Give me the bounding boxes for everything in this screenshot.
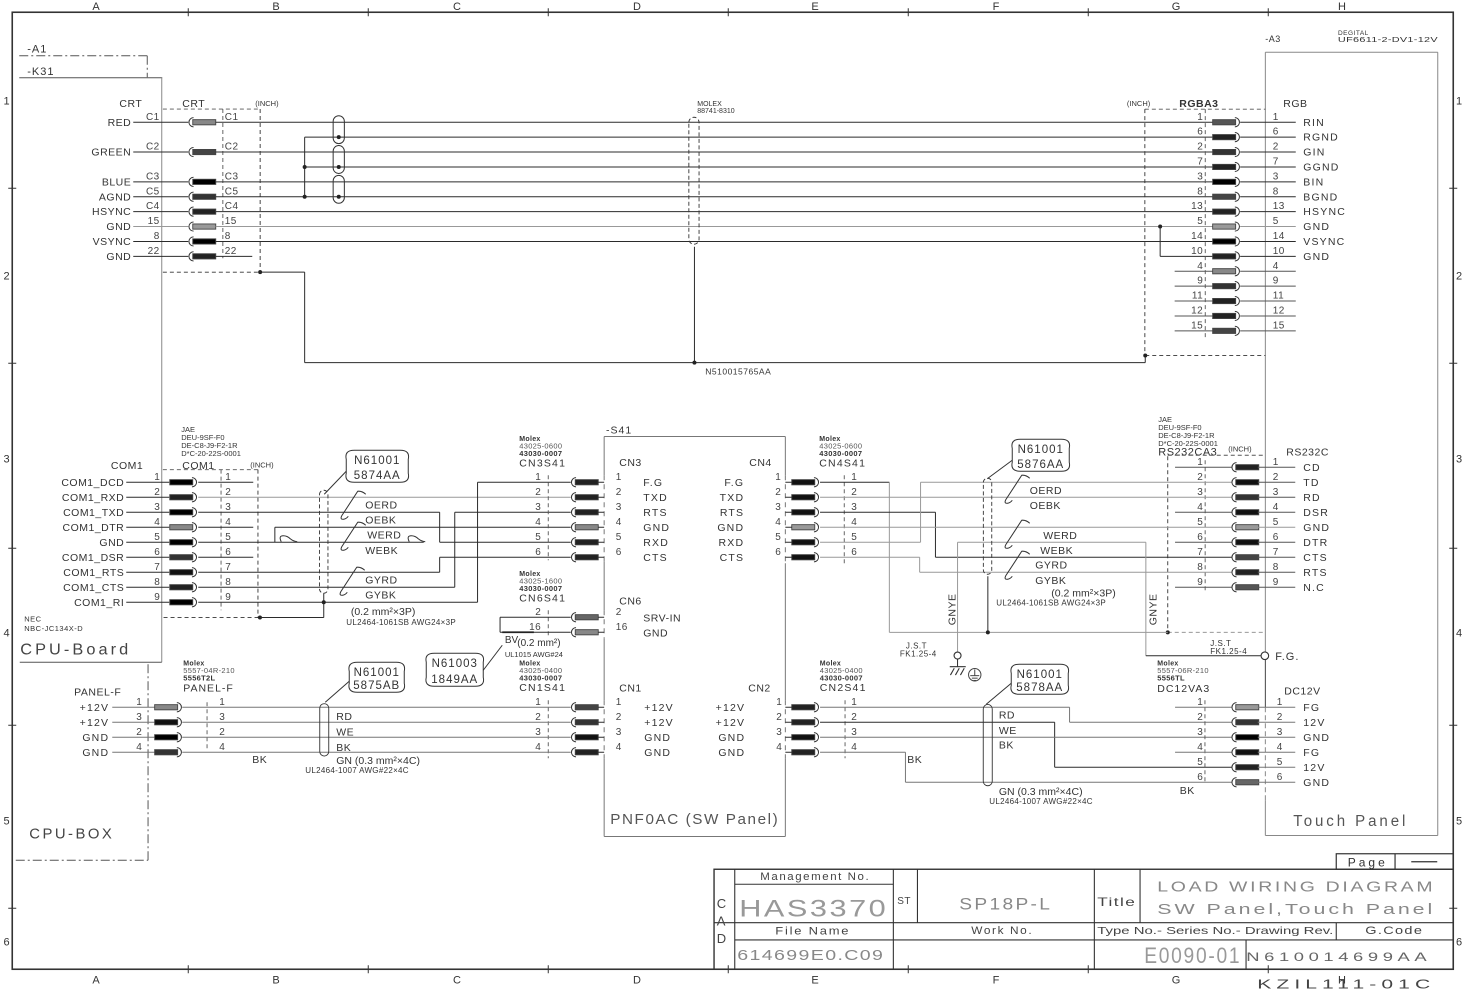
svg-text:2: 2 bbox=[219, 727, 225, 738]
svg-text:4: 4 bbox=[1197, 502, 1203, 513]
svg-text:15: 15 bbox=[225, 216, 237, 227]
svg-text:6: 6 bbox=[225, 547, 231, 558]
svg-text:TXD: TXD bbox=[720, 492, 745, 504]
svg-text:9: 9 bbox=[225, 592, 231, 603]
svg-text:CTS: CTS bbox=[720, 552, 745, 564]
svg-text:22: 22 bbox=[148, 246, 160, 257]
svg-text:C4: C4 bbox=[225, 201, 239, 212]
svg-text:DTR: DTR bbox=[1303, 537, 1328, 549]
svg-text:4: 4 bbox=[1273, 261, 1279, 272]
svg-text:+12V: +12V bbox=[716, 717, 746, 729]
svg-text:BK: BK bbox=[1180, 785, 1195, 797]
svg-text:3: 3 bbox=[1277, 727, 1283, 738]
svg-text:C2: C2 bbox=[225, 142, 239, 153]
svg-text:13: 13 bbox=[1191, 201, 1203, 212]
svg-text:COM1_DSR: COM1_DSR bbox=[62, 552, 124, 564]
svg-text:3: 3 bbox=[851, 502, 857, 513]
svg-text:16: 16 bbox=[616, 622, 628, 633]
svg-text:C3: C3 bbox=[146, 171, 160, 182]
svg-text:OEBK: OEBK bbox=[365, 514, 396, 526]
svg-text:RTS: RTS bbox=[1303, 567, 1327, 579]
svg-text:1: 1 bbox=[1197, 697, 1203, 708]
svg-text:COM1_DCD: COM1_DCD bbox=[61, 477, 124, 489]
svg-text:CRT: CRT bbox=[119, 98, 142, 110]
svg-text:RGB: RGB bbox=[1283, 98, 1307, 110]
svg-text:2: 2 bbox=[851, 712, 857, 723]
svg-text:1: 1 bbox=[225, 472, 231, 483]
svg-text:+12V: +12V bbox=[80, 702, 110, 714]
svg-text:8: 8 bbox=[225, 577, 231, 588]
svg-text:FK1.25-4: FK1.25-4 bbox=[1210, 647, 1247, 656]
svg-text:-A1: -A1 bbox=[27, 43, 47, 55]
svg-text:CN2S41: CN2S41 bbox=[820, 682, 867, 694]
svg-text:HSYNC: HSYNC bbox=[92, 206, 131, 218]
svg-text:2: 2 bbox=[1197, 142, 1203, 153]
svg-text:(INCH): (INCH) bbox=[1228, 444, 1252, 453]
svg-text:CN1: CN1 bbox=[619, 682, 642, 694]
svg-text:11: 11 bbox=[1273, 291, 1284, 302]
svg-text:GNYE: GNYE bbox=[1147, 593, 1159, 625]
svg-text:16: 16 bbox=[529, 622, 541, 633]
svg-text:SRV-IN: SRV-IN bbox=[643, 612, 681, 624]
svg-text:8: 8 bbox=[154, 231, 160, 242]
svg-text:COM1_RTS: COM1_RTS bbox=[63, 567, 124, 579]
svg-text:2: 2 bbox=[1277, 712, 1283, 723]
svg-text:GND: GND bbox=[106, 221, 131, 233]
svg-text:12: 12 bbox=[1191, 305, 1203, 316]
svg-text:2: 2 bbox=[776, 712, 782, 723]
svg-text:GND: GND bbox=[1303, 732, 1330, 744]
svg-text:4: 4 bbox=[616, 517, 622, 528]
svg-text:5: 5 bbox=[1273, 216, 1279, 227]
svg-text:File Name: File Name bbox=[775, 925, 850, 937]
svg-text:5556T2L: 5556T2L bbox=[183, 673, 215, 682]
svg-text:C4: C4 bbox=[146, 201, 160, 212]
svg-text:RIN: RIN bbox=[1303, 117, 1325, 129]
svg-text:1: 1 bbox=[1197, 457, 1203, 468]
svg-text:4: 4 bbox=[775, 517, 781, 528]
svg-text:1: 1 bbox=[616, 472, 622, 483]
svg-text:6: 6 bbox=[1197, 127, 1203, 138]
svg-text:88741-8310: 88741-8310 bbox=[697, 108, 734, 115]
svg-text:(INCH): (INCH) bbox=[255, 99, 279, 108]
svg-text:G: G bbox=[1172, 974, 1181, 986]
svg-text:RXD: RXD bbox=[718, 537, 744, 549]
svg-text:WERD: WERD bbox=[367, 529, 401, 541]
svg-text:8: 8 bbox=[1273, 562, 1279, 573]
svg-text:1: 1 bbox=[154, 472, 160, 483]
svg-text:N61003: N61003 bbox=[432, 658, 478, 670]
svg-text:4: 4 bbox=[154, 517, 160, 528]
svg-text:Work No.: Work No. bbox=[971, 925, 1033, 937]
svg-text:D*C-20-22S-0001: D*C-20-22S-0001 bbox=[181, 449, 241, 458]
svg-text:B: B bbox=[272, 1, 280, 13]
svg-text:5: 5 bbox=[535, 532, 541, 543]
svg-text:HSYNC: HSYNC bbox=[1303, 206, 1346, 218]
svg-text:NEC: NEC bbox=[24, 614, 41, 623]
svg-text:12V: 12V bbox=[1303, 762, 1325, 774]
svg-text:GND: GND bbox=[644, 732, 671, 744]
svg-text:RGBA3: RGBA3 bbox=[1179, 98, 1218, 110]
svg-text:F: F bbox=[993, 974, 1000, 986]
svg-text:6: 6 bbox=[1456, 936, 1463, 948]
svg-text:BLUE: BLUE bbox=[102, 176, 131, 188]
svg-text:5: 5 bbox=[775, 532, 781, 543]
svg-text:SP18P-L: SP18P-L bbox=[959, 895, 1052, 913]
svg-text:WEBK: WEBK bbox=[1040, 545, 1073, 557]
svg-text:GND: GND bbox=[106, 251, 131, 263]
svg-text:6: 6 bbox=[1273, 127, 1279, 138]
svg-text:N510015765AA: N510015765AA bbox=[705, 366, 771, 376]
svg-text:COM1_CTS: COM1_CTS bbox=[63, 582, 124, 594]
svg-text:3: 3 bbox=[535, 727, 541, 738]
svg-text:11: 11 bbox=[1192, 291, 1203, 302]
svg-text:8: 8 bbox=[1197, 186, 1203, 197]
svg-text:OERD: OERD bbox=[365, 499, 397, 511]
svg-text:AGND: AGND bbox=[99, 191, 131, 203]
svg-text:1: 1 bbox=[1456, 95, 1463, 107]
svg-text:OEBK: OEBK bbox=[1030, 500, 1061, 512]
svg-text:9: 9 bbox=[154, 592, 160, 603]
svg-text:4: 4 bbox=[225, 517, 231, 528]
svg-text:9: 9 bbox=[1197, 276, 1203, 287]
svg-text:14: 14 bbox=[1191, 231, 1203, 242]
svg-text:C5: C5 bbox=[146, 186, 160, 197]
svg-text:F.G: F.G bbox=[724, 477, 744, 489]
svg-text:RED: RED bbox=[108, 117, 132, 129]
svg-text:2: 2 bbox=[616, 487, 622, 498]
svg-text:B: B bbox=[272, 974, 280, 986]
svg-text:1: 1 bbox=[776, 697, 782, 708]
svg-text:4: 4 bbox=[535, 517, 541, 528]
svg-text:2: 2 bbox=[1273, 472, 1279, 483]
svg-text:GIN: GIN bbox=[1303, 147, 1325, 159]
svg-text:CPU-Board: CPU-Board bbox=[20, 641, 131, 658]
svg-text:SW Panel,Touch Panel: SW Panel,Touch Panel bbox=[1157, 902, 1435, 918]
svg-text:GND: GND bbox=[1303, 777, 1330, 789]
svg-text:1: 1 bbox=[775, 472, 781, 483]
svg-text:RXD: RXD bbox=[643, 537, 669, 549]
svg-text:5: 5 bbox=[1197, 757, 1203, 768]
svg-text:BK: BK bbox=[336, 742, 351, 754]
svg-text:13: 13 bbox=[1273, 201, 1285, 212]
svg-text:4: 4 bbox=[1456, 627, 1463, 639]
svg-text:8: 8 bbox=[1197, 562, 1203, 573]
svg-text:RD: RD bbox=[1303, 492, 1321, 504]
svg-text:1: 1 bbox=[1273, 457, 1279, 468]
svg-text:MOLEX: MOLEX bbox=[697, 101, 722, 108]
svg-text:1: 1 bbox=[3, 95, 10, 107]
svg-text:2: 2 bbox=[535, 487, 541, 498]
svg-text:3: 3 bbox=[775, 502, 781, 513]
svg-text:1: 1 bbox=[1273, 112, 1279, 123]
svg-text:A: A bbox=[92, 1, 100, 13]
svg-text:GYRD: GYRD bbox=[1035, 559, 1067, 571]
svg-text:F: F bbox=[993, 1, 1000, 13]
svg-text:3: 3 bbox=[1273, 487, 1279, 498]
svg-text:5: 5 bbox=[1197, 216, 1203, 227]
svg-text:1: 1 bbox=[136, 697, 142, 708]
svg-text:CN6: CN6 bbox=[619, 595, 642, 607]
svg-text:CN6S41: CN6S41 bbox=[519, 592, 566, 604]
svg-text:6: 6 bbox=[154, 547, 160, 558]
svg-text:RD: RD bbox=[336, 711, 352, 723]
svg-text:DEGITAL: DEGITAL bbox=[1338, 30, 1369, 37]
svg-text:7: 7 bbox=[154, 562, 160, 573]
svg-text:PANEL-F: PANEL-F bbox=[74, 686, 121, 698]
svg-text:10: 10 bbox=[1273, 246, 1285, 257]
svg-text:RS232C: RS232C bbox=[1286, 446, 1329, 458]
svg-text:E0090-01: E0090-01 bbox=[1144, 943, 1241, 968]
svg-text:5: 5 bbox=[1456, 815, 1463, 827]
svg-text:COM1_RI: COM1_RI bbox=[74, 597, 124, 609]
svg-text:2: 2 bbox=[1197, 472, 1203, 483]
svg-text:2: 2 bbox=[1273, 142, 1279, 153]
svg-text:G: G bbox=[1172, 1, 1181, 13]
svg-text:C1: C1 bbox=[225, 112, 239, 123]
svg-text:1: 1 bbox=[1197, 112, 1203, 123]
svg-text:1: 1 bbox=[1277, 697, 1283, 708]
svg-text:HAS3370: HAS3370 bbox=[739, 895, 888, 922]
svg-text:COM1_TXD: COM1_TXD bbox=[63, 507, 124, 519]
svg-text:Title: Title bbox=[1097, 895, 1136, 909]
svg-text:4: 4 bbox=[1197, 742, 1203, 753]
svg-text:GND: GND bbox=[644, 747, 671, 759]
svg-text:3: 3 bbox=[1456, 453, 1463, 465]
svg-text:GYBK: GYBK bbox=[1035, 575, 1066, 587]
svg-text:COM1: COM1 bbox=[111, 460, 143, 472]
svg-text:DSR: DSR bbox=[1303, 507, 1329, 519]
svg-text:CD: CD bbox=[1303, 462, 1321, 474]
svg-text:N61001: N61001 bbox=[1017, 669, 1063, 681]
svg-text:FG: FG bbox=[1303, 702, 1320, 714]
svg-text:LOAD WIRING DIAGRAM: LOAD WIRING DIAGRAM bbox=[1157, 879, 1435, 895]
svg-text:F.G: F.G bbox=[643, 477, 663, 489]
svg-text:2: 2 bbox=[1456, 270, 1463, 282]
svg-text:1849AA: 1849AA bbox=[431, 674, 478, 686]
svg-text:GND: GND bbox=[1303, 251, 1330, 263]
svg-text:1: 1 bbox=[851, 472, 857, 483]
svg-text:22: 22 bbox=[225, 246, 237, 257]
svg-text:CN4S41: CN4S41 bbox=[819, 457, 866, 469]
svg-text:(0.2 mm²×3P): (0.2 mm²×3P) bbox=[351, 606, 415, 618]
svg-text:COM1_RXD: COM1_RXD bbox=[62, 492, 124, 504]
svg-text:5: 5 bbox=[851, 532, 857, 543]
svg-text:3: 3 bbox=[3, 453, 10, 465]
svg-text:4: 4 bbox=[1273, 502, 1279, 513]
svg-text:UF6611-2-DV1-12V: UF6611-2-DV1-12V bbox=[1338, 37, 1438, 44]
svg-text:WE: WE bbox=[999, 725, 1017, 737]
svg-text:1: 1 bbox=[851, 697, 857, 708]
svg-text:WEBK: WEBK bbox=[365, 545, 398, 557]
svg-text:8: 8 bbox=[154, 577, 160, 588]
svg-text:GYBK: GYBK bbox=[365, 589, 396, 601]
svg-text:7: 7 bbox=[1273, 156, 1279, 167]
svg-text:E: E bbox=[811, 1, 819, 13]
svg-text:N61001: N61001 bbox=[354, 455, 400, 467]
svg-text:6: 6 bbox=[775, 547, 781, 558]
svg-text:7: 7 bbox=[1273, 547, 1279, 558]
svg-text:CN1S41: CN1S41 bbox=[519, 682, 566, 694]
svg-text:4: 4 bbox=[851, 517, 857, 528]
svg-text:8: 8 bbox=[1273, 186, 1279, 197]
svg-text:15: 15 bbox=[1273, 320, 1285, 331]
svg-text:WERD: WERD bbox=[1043, 530, 1077, 542]
svg-text:3: 3 bbox=[154, 502, 160, 513]
svg-text:9: 9 bbox=[1273, 577, 1279, 588]
svg-text:GND: GND bbox=[82, 732, 109, 744]
svg-text:GND: GND bbox=[643, 627, 668, 639]
svg-text:-S41: -S41 bbox=[606, 424, 632, 436]
svg-text:614699E0.C09: 614699E0.C09 bbox=[737, 948, 884, 964]
svg-text:3: 3 bbox=[1197, 487, 1203, 498]
svg-text:BK: BK bbox=[252, 754, 267, 766]
svg-text:4: 4 bbox=[851, 742, 857, 753]
svg-text:2: 2 bbox=[1197, 712, 1203, 723]
svg-text:CTS: CTS bbox=[1303, 552, 1328, 564]
svg-text:KZIL111-01C: KZIL111-01C bbox=[1257, 977, 1435, 991]
svg-text:TD: TD bbox=[1303, 477, 1319, 489]
svg-text:RTS: RTS bbox=[643, 507, 667, 519]
svg-text:(0.2 mm²): (0.2 mm²) bbox=[517, 638, 560, 649]
svg-text:2: 2 bbox=[535, 712, 541, 723]
svg-text:3: 3 bbox=[776, 727, 782, 738]
svg-text:GND: GND bbox=[718, 747, 745, 759]
svg-text:NBC-JC134X-D: NBC-JC134X-D bbox=[24, 624, 83, 633]
svg-text:3: 3 bbox=[1197, 171, 1203, 182]
svg-text:E: E bbox=[811, 974, 819, 986]
svg-text:GND: GND bbox=[1303, 221, 1330, 233]
svg-text:CN2: CN2 bbox=[748, 682, 771, 694]
svg-text:3: 3 bbox=[219, 712, 225, 723]
svg-text:CTS: CTS bbox=[643, 552, 668, 564]
svg-text:6: 6 bbox=[1197, 532, 1203, 543]
svg-text:3: 3 bbox=[535, 502, 541, 513]
svg-text:DC12V: DC12V bbox=[1284, 685, 1320, 697]
svg-text:2: 2 bbox=[616, 607, 622, 618]
svg-text:UL1015 AWG#24: UL1015 AWG#24 bbox=[505, 650, 563, 659]
svg-text:6: 6 bbox=[1197, 772, 1203, 783]
svg-text:VSYNC: VSYNC bbox=[1303, 236, 1345, 248]
svg-text:4: 4 bbox=[1277, 742, 1283, 753]
svg-text:UL2464-1061SB AWG24×3P: UL2464-1061SB AWG24×3P bbox=[996, 598, 1106, 607]
svg-text:7: 7 bbox=[1197, 547, 1203, 558]
svg-text:5: 5 bbox=[3, 815, 10, 827]
svg-text:4: 4 bbox=[219, 742, 225, 753]
svg-text:C3: C3 bbox=[225, 171, 239, 182]
svg-text:UL2464-1061SB AWG24×3P: UL2464-1061SB AWG24×3P bbox=[346, 618, 456, 627]
svg-text:5556TL: 5556TL bbox=[1157, 673, 1185, 682]
svg-text:C: C bbox=[717, 896, 727, 911]
svg-text:7: 7 bbox=[225, 562, 231, 573]
svg-text:3: 3 bbox=[1197, 727, 1203, 738]
svg-text:+12V: +12V bbox=[644, 702, 674, 714]
svg-text:(INCH): (INCH) bbox=[1127, 99, 1151, 108]
svg-text:1: 1 bbox=[219, 697, 225, 708]
svg-text:BK: BK bbox=[999, 739, 1014, 751]
svg-text:PNF0AC (SW Panel): PNF0AC (SW Panel) bbox=[610, 812, 779, 828]
svg-text:N61001: N61001 bbox=[1018, 444, 1064, 456]
svg-text:C2: C2 bbox=[146, 142, 160, 153]
svg-text:-A3: -A3 bbox=[1265, 34, 1281, 44]
svg-text:Touch Panel: Touch Panel bbox=[1293, 813, 1408, 830]
svg-text:+12V: +12V bbox=[80, 717, 110, 729]
svg-text:G.Code: G.Code bbox=[1365, 925, 1423, 937]
svg-text:2: 2 bbox=[851, 487, 857, 498]
svg-text:GND: GND bbox=[643, 522, 670, 534]
svg-text:5876AA: 5876AA bbox=[1017, 459, 1064, 471]
svg-text:3: 3 bbox=[616, 502, 622, 513]
svg-text:VSYNC: VSYNC bbox=[93, 236, 132, 248]
svg-text:1: 1 bbox=[616, 697, 622, 708]
svg-text:A: A bbox=[717, 913, 726, 928]
svg-text:6: 6 bbox=[1277, 772, 1283, 783]
svg-text:N.C: N.C bbox=[1303, 582, 1325, 594]
svg-text:+12V: +12V bbox=[716, 702, 746, 714]
svg-text:-K31: -K31 bbox=[27, 66, 54, 78]
svg-text:D: D bbox=[633, 974, 641, 986]
svg-text:H: H bbox=[1338, 1, 1346, 13]
svg-text:CN4: CN4 bbox=[749, 457, 772, 469]
svg-text:GND: GND bbox=[82, 747, 109, 759]
svg-text:GND: GND bbox=[99, 537, 124, 549]
svg-text:C5: C5 bbox=[225, 186, 239, 197]
svg-text:9: 9 bbox=[1273, 276, 1279, 287]
svg-text:WE: WE bbox=[336, 726, 354, 738]
svg-text:6: 6 bbox=[616, 547, 622, 558]
svg-text:N61001: N61001 bbox=[354, 667, 400, 679]
svg-text:7: 7 bbox=[1197, 156, 1203, 167]
svg-text:GREEN: GREEN bbox=[91, 147, 131, 159]
svg-text:2: 2 bbox=[136, 727, 142, 738]
svg-text:CRT: CRT bbox=[182, 98, 205, 110]
svg-text:CPU-BOX: CPU-BOX bbox=[29, 825, 114, 842]
svg-text:5: 5 bbox=[154, 532, 160, 543]
svg-text:5: 5 bbox=[1277, 757, 1283, 768]
svg-text:6: 6 bbox=[535, 547, 541, 558]
svg-text:Page: Page bbox=[1348, 855, 1388, 869]
svg-text:D: D bbox=[717, 931, 727, 946]
svg-text:RGND: RGND bbox=[1303, 132, 1339, 144]
svg-text:3: 3 bbox=[616, 727, 622, 738]
svg-text:UL2464-1007 AWG#22×4C: UL2464-1007 AWG#22×4C bbox=[989, 797, 1093, 806]
svg-text:3: 3 bbox=[1273, 171, 1279, 182]
svg-text:GGND: GGND bbox=[1303, 161, 1339, 173]
svg-text:12: 12 bbox=[1273, 305, 1285, 316]
svg-text:2: 2 bbox=[775, 487, 781, 498]
svg-text:6: 6 bbox=[851, 547, 857, 558]
svg-text:GYRD: GYRD bbox=[365, 574, 397, 586]
svg-text:4: 4 bbox=[616, 742, 622, 753]
svg-text:3: 3 bbox=[225, 502, 231, 513]
svg-text:2: 2 bbox=[225, 487, 231, 498]
svg-text:5875AB: 5875AB bbox=[353, 680, 400, 692]
svg-text:5: 5 bbox=[616, 532, 622, 543]
svg-text:RD: RD bbox=[999, 709, 1015, 721]
svg-text:4: 4 bbox=[3, 627, 10, 639]
svg-text:C1: C1 bbox=[146, 112, 160, 123]
svg-text:OERD: OERD bbox=[1030, 485, 1062, 497]
svg-text:5878AA: 5878AA bbox=[1016, 682, 1063, 694]
svg-text:PANEL-F: PANEL-F bbox=[183, 682, 234, 694]
svg-text:GND: GND bbox=[1303, 522, 1330, 534]
svg-text:4: 4 bbox=[535, 742, 541, 753]
svg-text:5: 5 bbox=[1197, 517, 1203, 528]
svg-text:15: 15 bbox=[1191, 320, 1203, 331]
svg-text:GND: GND bbox=[717, 522, 744, 534]
svg-text:2: 2 bbox=[535, 607, 541, 618]
svg-text:1: 1 bbox=[535, 472, 541, 483]
